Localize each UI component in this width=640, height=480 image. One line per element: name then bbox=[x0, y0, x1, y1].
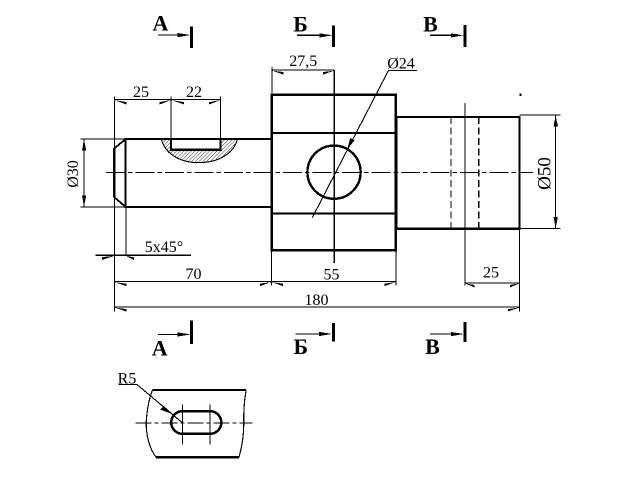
svg-text:А: А bbox=[153, 11, 169, 36]
arrow 70 right bbox=[260, 282, 272, 286]
arrow 25r right bbox=[510, 283, 520, 287]
arrow 27.5 left bbox=[272, 71, 284, 75]
dim 27.5 ext left bbox=[271, 67, 273, 93]
detail right break line bbox=[239, 390, 246, 457]
arrow 22 left bbox=[171, 100, 184, 104]
svg-text:70: 70 bbox=[186, 266, 202, 283]
svg-text:22: 22 bbox=[186, 84, 202, 101]
svg-text:25: 25 bbox=[133, 84, 149, 101]
keyway slot left edge bbox=[170, 139, 172, 150]
svg-text:25: 25 bbox=[483, 265, 499, 282]
keyway slot bottom edge bbox=[170, 148, 222, 150]
svg-text:55: 55 bbox=[324, 267, 340, 284]
R5 leader underline bbox=[119, 384, 138, 386]
arrow 180 left bbox=[115, 307, 127, 311]
hole vertical centerline bbox=[333, 70, 335, 263]
block inner line upper bbox=[271, 132, 397, 134]
svg-text:Б: Б bbox=[293, 12, 308, 37]
R5 arrow bbox=[160, 406, 173, 415]
keyway lens boundary bbox=[162, 139, 238, 162]
section V top marker bbox=[423, 12, 465, 47]
dim 70-55 line bbox=[114, 281, 396, 283]
svg-text:В: В bbox=[425, 334, 440, 359]
arrow 25 right bbox=[160, 100, 172, 104]
arrow 22 right bbox=[209, 100, 221, 104]
hole circle O24 bbox=[307, 146, 360, 199]
arrow 27.5 right bbox=[323, 71, 334, 75]
O30 ext bottom bbox=[81, 206, 126, 208]
detail bottom edge bbox=[156, 456, 239, 458]
arrow 180 right bbox=[508, 307, 520, 311]
extension line keyway left x=171 bbox=[170, 97, 172, 140]
O50 arrow bottom bbox=[554, 217, 558, 228]
extension line chamfer x=126 bbox=[125, 207, 127, 255]
shaft left face bbox=[113, 148, 115, 198]
keyway local-section hatch bbox=[155, 135, 245, 167]
O30 arrow bottom bbox=[82, 196, 86, 207]
O30 ext top bbox=[81, 138, 126, 140]
dim 180 line bbox=[114, 306, 519, 308]
svg-text:R5: R5 bbox=[118, 371, 137, 388]
section V cut line bbox=[464, 103, 466, 286]
arrow 55 left bbox=[272, 282, 284, 286]
section A bottom marker bbox=[152, 321, 192, 361]
chamfer bottom diagonal bbox=[114, 197, 125, 207]
O50 arrow top bbox=[554, 115, 558, 126]
svg-text:А: А bbox=[152, 335, 168, 360]
detail left break line bbox=[146, 390, 156, 457]
arrow 70 left bbox=[115, 282, 127, 286]
O24 arrow bbox=[347, 138, 354, 149]
svg-text:Ø24: Ø24 bbox=[387, 56, 415, 73]
ext block right bottom bbox=[395, 251, 397, 286]
O50 dim line bbox=[555, 115, 557, 229]
ext right face bottom bbox=[519, 229, 521, 312]
dim 27.5 line bbox=[272, 69, 334, 71]
svg-text:5х45°: 5х45° bbox=[145, 239, 183, 256]
slot obround bbox=[171, 411, 221, 434]
slot crosshair left vertical bbox=[182, 405, 184, 445]
hidden line right bbox=[478, 117, 480, 229]
svg-text:Б: Б bbox=[294, 334, 309, 359]
main shaft centerline bbox=[106, 172, 533, 174]
extension line left face x=114.4 bbox=[113, 97, 115, 312]
speck bbox=[520, 94, 522, 97]
arrow 25r left bbox=[465, 283, 475, 287]
O24 shelf bbox=[388, 69, 417, 71]
chamfer arrow left bbox=[102, 256, 114, 260]
section B bottom marker bbox=[294, 323, 334, 359]
R5 leader diagonal bbox=[137, 385, 183, 424]
svg-text:В: В bbox=[423, 12, 438, 37]
detail top edge bbox=[153, 389, 247, 391]
chamfer inner line bbox=[124, 138, 126, 208]
O50 ext bottom bbox=[520, 227, 561, 229]
block inner line lower bbox=[271, 213, 397, 215]
section B top marker bbox=[293, 12, 333, 48]
keyway slot right edge bbox=[219, 139, 221, 150]
O30 arrow top bbox=[82, 139, 86, 150]
chamfer arrow right bbox=[126, 256, 134, 261]
O30 dim line bbox=[83, 139, 85, 207]
keyway slot white bbox=[171, 138, 221, 150]
arrow 55 right bbox=[385, 282, 397, 286]
shaft section 1 top edge bbox=[125, 138, 273, 140]
slot crosshair right vertical bbox=[209, 405, 211, 445]
svg-text:180: 180 bbox=[305, 292, 329, 309]
chamfer top diagonal bbox=[114, 139, 125, 148]
svg-text:Ø50: Ø50 bbox=[535, 157, 556, 190]
shaft section 1 bottom edge bbox=[125, 206, 273, 208]
dim 25-22 line bbox=[114, 99, 220, 101]
hidden line left bbox=[450, 117, 452, 229]
arrow 25 left bbox=[115, 100, 127, 104]
detail view centerline bbox=[136, 422, 253, 424]
right section outline bbox=[397, 117, 520, 229]
svg-text:Ø30: Ø30 bbox=[65, 160, 82, 188]
middle block outline bbox=[272, 95, 396, 250]
chamfer 5x45 shelf bbox=[95, 254, 191, 256]
section V bottom marker bbox=[425, 322, 465, 359]
O24 leader bbox=[312, 70, 388, 217]
svg-text:27,5: 27,5 bbox=[289, 53, 317, 70]
dim 25 right line bbox=[465, 282, 520, 284]
section A top marker bbox=[153, 11, 192, 49]
ext block left bottom bbox=[271, 251, 273, 286]
O50 ext top bbox=[520, 114, 561, 116]
extension line keyway right x=220.5 bbox=[220, 97, 222, 140]
